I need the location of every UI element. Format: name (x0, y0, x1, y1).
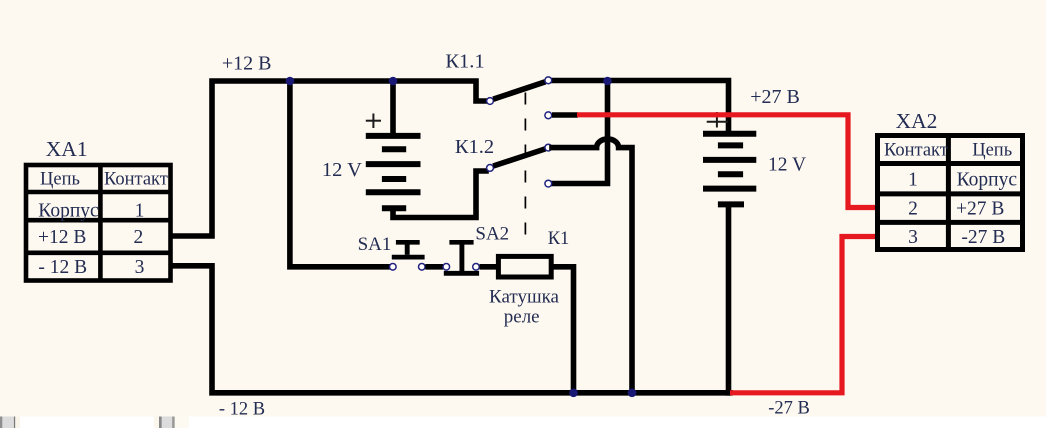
svg-text:XA1: XA1 (46, 137, 88, 161)
node junction dot bottom rail / K1.2 (628, 389, 637, 398)
wire top rail from K1.1 throw to right battery plus (551, 81, 729, 134)
wire between SA1 and SA2 (425, 264, 443, 270)
svg-text:+12 В: +12 В (38, 227, 86, 248)
node junction dot top rail / SA branch (286, 77, 295, 86)
wire SA2 to relay coil (480, 264, 498, 270)
svg-text:2: 2 (908, 199, 918, 220)
svg-text:К1: К1 (548, 229, 570, 249)
scrollbar artifact left (0, 417, 2, 428)
wire battery GB1 negative to K1.2 pole (393, 171, 486, 218)
scrollbar artifact thumb (154, 417, 159, 428)
connector XA1 table (26, 165, 171, 281)
relay contact K1.1 blade (493, 82, 545, 99)
connector XA2 table (878, 136, 1023, 250)
wire relay coil to bottom rail (553, 267, 574, 390)
svg-text:12 V: 12 V (768, 155, 806, 176)
svg-text:Цепь: Цепь (40, 170, 80, 190)
node junction dot bottom rail / coil (569, 389, 578, 398)
svg-text:Катушка: Катушка (489, 287, 559, 308)
wire from top rail down to SA1 (290, 81, 389, 267)
relay linkage dashed line (524, 93, 526, 237)
svg-text:1: 1 (908, 170, 918, 191)
svg-text:Контакт: Контакт (104, 170, 168, 190)
relay coil K1 (498, 256, 551, 277)
wire +12V: XA1 pin2 to top rail corner and rail to K1.1 pole step (173, 81, 486, 236)
svg-text:1: 1 (135, 200, 145, 221)
svg-text:+12 В: +12 В (222, 53, 272, 75)
wire left battery top from rail (390, 81, 396, 133)
svg-text:реле: реле (504, 307, 540, 328)
svg-text:К1.1: К1.1 (445, 50, 484, 72)
svg-text:- 12 В: - 12 В (38, 257, 87, 278)
wire -27V red from bottom rail to XA2 pin3 (730, 237, 876, 393)
svg-text:Цепь: Цепь (972, 140, 1012, 160)
connector XA1 table text (38, 170, 168, 278)
wire node at x607 down to K1.2 NC contact (552, 81, 608, 184)
connector XA2 table text (884, 140, 1017, 248)
battery GB1 plus sign (366, 114, 381, 129)
svg-text:SA2: SA2 (475, 224, 509, 245)
relay contact K1.2 blade (493, 149, 545, 166)
svg-text:12 V: 12 V (322, 159, 362, 181)
node junction dot top rail / K1.2 NC branch (603, 77, 612, 86)
svg-text:-27 В: -27 В (961, 227, 1005, 248)
svg-text:XA2: XA2 (896, 109, 938, 133)
pushbutton SA1 contact circles (390, 264, 397, 271)
svg-text:SA1: SA1 (358, 234, 392, 255)
svg-text:+27 В: +27 В (956, 199, 1004, 220)
pushbutton SA2 contact circles (443, 264, 450, 271)
svg-text:3: 3 (135, 257, 145, 278)
wire battery GB2 negative down to bottom rail (726, 204, 732, 392)
wire stub from K1.1 lower contact (552, 112, 578, 118)
battery GB2 plus sign (707, 112, 728, 128)
battery GB2 12V plates (703, 134, 756, 205)
pushbutton SA1 actuator (392, 242, 425, 257)
wire -12V: XA1 pin3 down to bottom rail (173, 266, 730, 393)
svg-text:К1.2: К1.2 (455, 136, 494, 158)
svg-text:+27 В: +27 В (750, 86, 800, 108)
svg-text:Контакт: Контакт (884, 140, 948, 160)
wire K1.2 throw with hop over node wire, down to bottom rail (552, 139, 632, 390)
relay contact K1.2 NC circle (545, 180, 552, 187)
wire +27V red from K1.1 lower contact to XA2 pin2 (577, 115, 876, 208)
window artifact strip at bottom (0, 417, 1046, 428)
svg-text:-27 В: -27 В (768, 399, 810, 419)
battery GB1 12V plates (366, 136, 421, 208)
svg-text:3: 3 (908, 227, 918, 248)
svg-text:Корпус: Корпус (38, 200, 99, 221)
relay contact K1.2 throw circle (545, 144, 552, 151)
relay contact K1.1 throw circle (545, 77, 552, 84)
relay contact K1.1 pole circle (487, 98, 494, 105)
pushbutton SA2 actuator (444, 242, 479, 273)
node junction dot top rail / battery GB1 (389, 77, 398, 86)
relay contact K1.1 lower contact circle (545, 112, 552, 119)
svg-text:2: 2 (134, 227, 144, 248)
relay contact K1.2 pole circle (487, 165, 494, 172)
svg-text:Корпус: Корпус (957, 170, 1018, 191)
